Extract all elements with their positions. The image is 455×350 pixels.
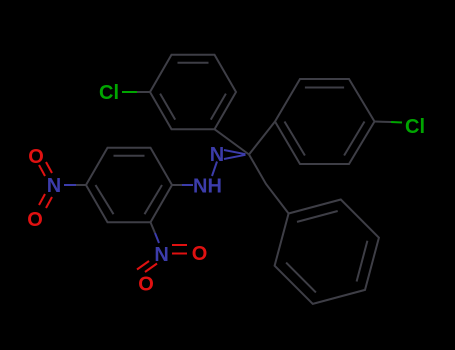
svg-text:N: N: [154, 244, 168, 266]
svg-text:O: O: [138, 274, 154, 296]
svg-text:O: O: [192, 243, 208, 265]
svg-text:NH: NH: [193, 176, 222, 198]
svg-text:O: O: [28, 146, 44, 168]
svg-text:Cl: Cl: [405, 116, 425, 138]
svg-text:N: N: [47, 175, 61, 197]
svg-text:O: O: [27, 209, 43, 231]
svg-text:Cl: Cl: [99, 82, 119, 104]
svg-text:N: N: [210, 144, 224, 166]
